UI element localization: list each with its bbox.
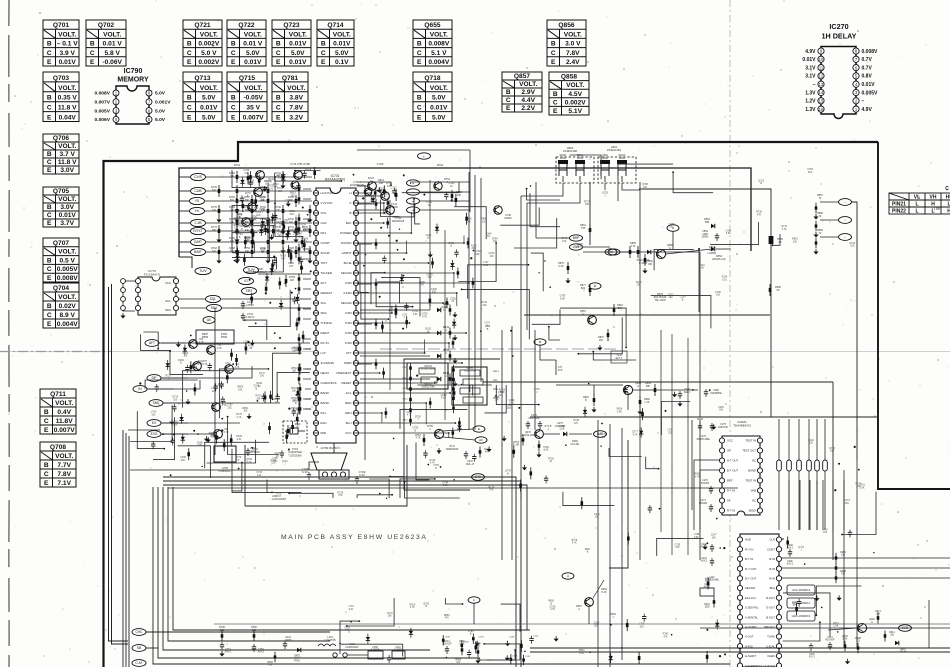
svg-text:CLR: CLR <box>769 538 775 542</box>
svg-text:220: 220 <box>669 296 674 299</box>
svg-text:VOLT.: VOLT. <box>55 400 73 407</box>
svg-text:10K: 10K <box>234 227 239 230</box>
wire vertical right <box>816 480 818 530</box>
svg-text:VOLT.: VOLT. <box>333 31 351 38</box>
transistor Q715 <box>212 403 221 412</box>
connector SB <box>132 645 146 652</box>
svg-text:VCC: VCC <box>165 281 171 285</box>
svg-text:SOUND: SOUND <box>341 241 353 245</box>
svg-text:0.02V: 0.02V <box>59 303 77 310</box>
svg-text:PIN22: PIN22 <box>892 209 906 215</box>
svg-text:C.AF: C.AF <box>135 661 142 665</box>
svg-text:L25SC: L25SC <box>246 303 254 307</box>
wire verticals x469-481 <box>468 172 470 430</box>
connector LH2 oval <box>608 249 620 255</box>
svg-text:100: 100 <box>476 253 481 256</box>
voltage table Q706 <box>43 134 79 174</box>
svg-text:10K: 10K <box>290 279 295 282</box>
svg-text:C208: C208 <box>787 545 793 547</box>
wire mesh layer <box>130 155 876 660</box>
resistor R308 <box>274 652 276 662</box>
svg-text:1K: 1K <box>451 300 454 303</box>
components left of IC202 <box>711 544 713 547</box>
svg-text:4.7K: 4.7K <box>224 431 229 434</box>
svg-text:VOLT.: VOLT. <box>244 31 262 38</box>
svg-text:5.0V: 5.0V <box>155 91 166 97</box>
svg-text:Q705: Q705 <box>53 188 69 195</box>
svg-text:47K: 47K <box>338 494 343 497</box>
svg-text:5.6K: 5.6K <box>173 423 178 426</box>
svg-text:L208 L2066RDKK: L208 L2066RDKK <box>792 616 811 618</box>
connector VIF oval <box>418 153 431 159</box>
svg-text:5.6K: 5.6K <box>843 639 848 641</box>
svg-text:B22: B22 <box>581 287 586 290</box>
transistor Q708 <box>214 430 223 439</box>
svg-text:47K: 47K <box>284 222 289 225</box>
svg-text:C62P20K: C62P20K <box>555 425 566 428</box>
transistor R657 bottom <box>585 598 594 607</box>
svg-text:BAND: BAND <box>321 401 330 405</box>
voltage table Q715 <box>227 72 267 122</box>
diode RB41 <box>360 309 430 311</box>
svg-text:100: 100 <box>640 625 645 628</box>
transistor Q711 <box>207 346 216 355</box>
capacitors C270 C271 left of IC201 <box>710 486 712 489</box>
connector C.AF <box>132 660 146 667</box>
voltage table Q722 <box>227 20 266 66</box>
diode C107 <box>297 648 301 652</box>
capacitor C701 <box>242 313 244 316</box>
svg-text:E: E <box>553 108 558 115</box>
border top step line <box>104 142 879 667</box>
svg-text:47K: 47K <box>485 452 490 454</box>
transistor Q723 <box>381 192 390 201</box>
svg-text:R308: R308 <box>267 662 273 664</box>
svg-text:3.8V: 3.8V <box>289 95 303 102</box>
svg-text:0.005V: 0.005V <box>862 90 879 96</box>
svg-text:100: 100 <box>456 661 461 664</box>
speaker H803 <box>558 160 568 164</box>
svg-text:SDA: SDA <box>165 308 171 312</box>
svg-text:4.7K: 4.7K <box>407 414 412 417</box>
svg-text:E: E <box>478 427 480 431</box>
svg-text:SCL: SCL <box>321 301 327 305</box>
svg-text:35 V: 35 V <box>246 105 260 112</box>
svg-text:BRIGHT: BRIGHT <box>764 625 775 629</box>
PIN21/PIN22 logic table <box>889 193 950 214</box>
svg-text:8.9 V: 8.9 V <box>59 312 75 319</box>
svg-text:5.5M: 5.5M <box>345 321 352 325</box>
wire verticals right bottom <box>843 470 845 648</box>
svg-text:160VE: 160VE <box>294 658 301 660</box>
op-amp U IC202 <box>740 534 779 667</box>
svg-text:TEST OUT: TEST OUT <box>742 449 756 453</box>
svg-text:Q857: Q857 <box>514 73 530 80</box>
svg-text:10K: 10K <box>595 516 600 519</box>
svg-text:L: L <box>931 209 934 215</box>
svg-text:B-Y OUT: B-Y OUT <box>745 577 757 581</box>
voltage table Q713 <box>183 72 222 122</box>
svg-text:120: 120 <box>252 629 257 632</box>
svg-text:S10B1170BA: S10B1170BA <box>421 386 435 389</box>
svg-text:B: B <box>539 340 541 344</box>
svg-text:VOLT.: VOLT. <box>58 249 76 256</box>
svg-text:R-OUT: R-OUT <box>766 596 775 600</box>
svg-text:VOLT.: VOLT. <box>430 85 448 92</box>
svg-text:C: C <box>945 186 949 192</box>
svg-text:C197: C197 <box>479 637 485 639</box>
voltage table Q721 <box>183 20 222 66</box>
connector bottom right oval <box>899 625 912 632</box>
svg-text:2.9V: 2.9V <box>521 89 535 96</box>
svg-text:5.1 V: 5.1 V <box>431 50 447 57</box>
svg-text:4.5M: 4.5M <box>345 311 352 315</box>
svg-text:15: 15 <box>819 99 824 104</box>
svg-text:Q707: Q707 <box>53 240 69 247</box>
svg-text:B: B <box>44 462 49 469</box>
svg-text:•: • <box>844 235 845 239</box>
svg-text:J06: J06 <box>716 294 721 297</box>
svg-text:220: 220 <box>482 304 487 307</box>
dashed box speakers <box>556 157 594 183</box>
components sprinkle IC left pins <box>299 344 301 355</box>
svg-text:0.26568: 0.26568 <box>371 650 380 652</box>
capacitor C148 <box>242 301 244 304</box>
svg-text:TRCK: TRCK <box>294 660 301 662</box>
transistor Q702 <box>254 188 263 197</box>
svg-text:C784: C784 <box>543 447 549 449</box>
svg-text:REF: REF <box>727 479 733 483</box>
svg-text:S10B1170BLF: S10B1170BLF <box>421 369 436 371</box>
svg-text:HUE: HUE <box>745 538 751 542</box>
svg-text:C62P100K: C62P100K <box>528 417 540 420</box>
svg-text:0.008V: 0.008V <box>428 41 450 48</box>
connector 3-pin <box>319 470 349 479</box>
svg-text:3.1V: 3.1V <box>805 74 816 80</box>
resistor R867 <box>607 329 609 341</box>
svg-text:10K: 10K <box>238 389 243 392</box>
svg-text:H: H <box>349 191 351 195</box>
wires speaker box outputs <box>521 183 563 196</box>
svg-text:0.1V: 0.1V <box>335 59 349 66</box>
svg-text:SECAM: SECAM <box>341 301 352 305</box>
connector SND <box>149 400 163 407</box>
svg-text:C110: C110 <box>395 647 401 649</box>
connector G/MT <box>191 238 206 245</box>
svg-text:BAND: BAND <box>321 391 330 395</box>
svg-text:0.01V: 0.01V <box>59 212 77 219</box>
svg-text:R753: R753 <box>513 442 519 444</box>
capacitor C424 <box>284 641 286 644</box>
svg-text:R-Y IN: R-Y IN <box>745 547 753 551</box>
wire fanout IC701 right pins <box>357 188 474 439</box>
svg-text:CONT: CONT <box>767 547 775 551</box>
svg-text:L: L <box>915 202 918 208</box>
svg-text:TINT: TINT <box>321 261 328 265</box>
svg-text:0.002V: 0.002V <box>198 59 220 66</box>
svg-text:100: 100 <box>289 265 294 268</box>
svg-text:47K: 47K <box>239 223 244 226</box>
transistor Q748 <box>494 206 502 214</box>
svg-text:0.01: 0.01 <box>443 484 448 487</box>
svg-text:E: E <box>231 59 236 66</box>
ceramic filter A401 <box>214 446 236 462</box>
svg-text:2SC: 2SC <box>227 406 232 409</box>
svg-text:0.7V: 0.7V <box>862 57 873 63</box>
svg-text:1K: 1K <box>276 455 279 458</box>
transistor Q707 <box>193 362 202 371</box>
svg-text:VCC: VCC <box>727 439 733 443</box>
svg-text:MUL.47: MUL.47 <box>466 463 475 466</box>
svg-text:H26.61P: H26.61P <box>443 644 452 646</box>
svg-text:10K: 10K <box>273 186 278 189</box>
svg-text:0.004V: 0.004V <box>57 321 79 328</box>
transistor Q857 left <box>588 316 597 325</box>
wire bottom y632 <box>146 631 330 633</box>
svg-text:CHES: CHES <box>767 654 775 658</box>
svg-text:0.01V: 0.01V <box>244 59 262 66</box>
connector T/BT <box>242 287 257 294</box>
svg-text:R811: R811 <box>403 367 409 369</box>
svg-text:Q713: Q713 <box>194 75 210 82</box>
svg-text:B: B <box>506 89 511 96</box>
connector SIF <box>147 375 161 382</box>
svg-text:RED: RED <box>345 401 352 405</box>
svg-text:0.005V: 0.005V <box>94 108 110 114</box>
svg-text:4.9V: 4.9V <box>862 107 873 113</box>
svg-text:C: C <box>187 50 192 57</box>
transistor Q712 <box>225 365 234 374</box>
svg-text:1.3V: 1.3V <box>805 90 816 96</box>
svg-text:BLU: BLU <box>346 421 352 425</box>
wires IC202 right rows to edge <box>782 557 950 559</box>
svg-text:C186: C186 <box>445 636 451 638</box>
svg-text:14789 MHI80-4: 14789 MHI80-4 <box>320 446 340 450</box>
voltage table Q705 <box>43 187 79 227</box>
svg-text:10K: 10K <box>457 194 462 197</box>
svg-text:R761: R761 <box>291 388 297 390</box>
svg-text:J06: J06 <box>643 186 648 189</box>
svg-text:TDA468X/V3: TDA468X/V3 <box>733 423 751 427</box>
svg-text:Q704: Q704 <box>53 285 69 292</box>
svg-text:C108: C108 <box>463 641 469 643</box>
svg-text:NC: NC <box>752 459 756 463</box>
svg-text:12: 12 <box>819 74 824 79</box>
svg-text:KEL 1: KEL 1 <box>684 391 691 394</box>
box C188 <box>368 651 383 659</box>
svg-text:RC IN: RC IN <box>321 341 329 345</box>
svg-text:0.01V: 0.01V <box>862 82 876 88</box>
svg-text:C: C <box>44 471 49 478</box>
svg-text:A: A <box>567 574 569 578</box>
connector C.I/B <box>191 219 206 226</box>
connector EXG <box>147 431 161 438</box>
svg-text:J06: J06 <box>183 355 188 358</box>
svg-text:SPKR: SPKR <box>560 157 567 160</box>
connector YS <box>190 197 205 204</box>
wire vertical right <box>788 480 790 530</box>
svg-text:C100: C100 <box>533 636 539 638</box>
connector B/MT <box>191 248 206 255</box>
svg-text:C: C <box>47 212 52 219</box>
wire vertical x445 <box>444 230 446 420</box>
svg-text:R106: R106 <box>842 636 848 638</box>
svg-text:BLK: BLK <box>346 221 352 225</box>
transistor Q705 <box>291 181 299 189</box>
svg-text:5.1V: 5.1V <box>568 108 582 115</box>
svg-text:POWER: POWER <box>340 231 352 235</box>
svg-text:3/4 BAND: 3/4 BAND <box>321 361 335 365</box>
capacitors C475 pair <box>699 423 701 426</box>
wire vertical from D854 junction <box>698 249 700 312</box>
svg-text:V+SYNC: V+SYNC <box>321 201 334 205</box>
svg-text:E: E <box>417 115 422 122</box>
svg-text:4.7K: 4.7K <box>235 366 240 369</box>
capacitor C854 <box>716 233 718 236</box>
svg-text:VOLT.: VOLT. <box>289 31 307 38</box>
svg-text:H: H <box>931 202 935 208</box>
svg-text:R-IN: R-IN <box>769 577 775 581</box>
svg-text:MODI: MODI <box>749 509 757 513</box>
voltage table Q701 <box>43 20 79 66</box>
wires left-middle runs <box>161 342 310 344</box>
svg-text:CH -: CH - <box>493 378 498 382</box>
svg-text:T35: T35 <box>581 227 586 230</box>
svg-text:5.6K: 5.6K <box>197 444 202 447</box>
wires verticals behind pills <box>778 419 780 530</box>
svg-text:2SC: 2SC <box>181 459 186 462</box>
svg-text:10K: 10K <box>292 391 297 393</box>
svg-text:MID: MID <box>321 431 327 435</box>
svg-text:B: B <box>47 204 52 211</box>
svg-text:14: 14 <box>819 90 824 95</box>
resistor column R811-R816 <box>410 363 412 374</box>
svg-text:4.7K: 4.7K <box>550 608 555 611</box>
svg-text:VOLT.: VOLT. <box>58 294 76 301</box>
resistor R864 <box>613 304 615 316</box>
wire vertical x640 <box>639 182 641 560</box>
svg-text:1K: 1K <box>245 344 248 347</box>
left margin scan line <box>8 0 10 667</box>
svg-text:3.5M: 3.5M <box>345 281 352 285</box>
resistor network R7xx cluster <box>218 185 220 197</box>
crystal X701 dashed box <box>283 421 307 443</box>
svg-text:120: 120 <box>220 629 225 632</box>
svg-text:L.8K: L.8K <box>834 626 839 628</box>
svg-text:5.0V: 5.0V <box>155 108 166 114</box>
connector EX <box>147 420 161 427</box>
voltage table Q856 <box>547 20 586 66</box>
svg-text:1.2V: 1.2V <box>805 99 816 105</box>
svg-text:J06: J06 <box>243 410 248 413</box>
svg-text:VOLT.: VOLT. <box>55 453 73 460</box>
voltage table Q655 <box>413 20 452 66</box>
svg-text:VAB: VAB <box>751 489 757 493</box>
left double bus <box>109 287 129 641</box>
svg-text:0.01V: 0.01V <box>802 57 816 63</box>
svg-text:0.001V: 0.001V <box>155 100 171 106</box>
svg-text:-0.06V: -0.06V <box>102 59 122 66</box>
svg-text:R816: R816 <box>403 420 409 422</box>
svg-text:MAIN PCB ASSY E8HW UE2623A: MAIN PCB ASSY E8HW UE2623A <box>281 534 428 541</box>
svg-text:K01.45L: K01.45L <box>571 443 581 446</box>
wires Q836 area <box>556 384 623 386</box>
svg-text:1K: 1K <box>258 385 261 388</box>
svg-text:51K: 51K <box>212 189 217 192</box>
svg-text:R26.6VP: R26.6VP <box>825 640 835 642</box>
svg-text:SECAM: SECAM <box>341 271 352 275</box>
svg-text:SPKR: SPKR <box>619 157 626 160</box>
wires cluster rows <box>232 176 312 178</box>
svg-text:FR202: FR202 <box>504 217 512 220</box>
svg-text:IDENT: IDENT <box>321 331 330 335</box>
svg-text:E: E <box>506 105 511 112</box>
transistor Q701 <box>256 171 265 180</box>
transistor Q722 <box>368 182 377 191</box>
svg-text:J06R0000R: J06R0000R <box>446 448 459 451</box>
transistor Q706 <box>189 340 198 349</box>
svg-text:VOL: VOL <box>321 211 327 215</box>
label T2-R <box>611 351 627 363</box>
svg-text:B-IN: B-IN <box>769 567 775 571</box>
svg-text:1K: 1K <box>549 460 552 463</box>
svg-text:0.25mC: 0.25mC <box>245 315 254 319</box>
svg-text:C2/B: C2/B <box>194 189 201 193</box>
svg-text:3.0V: 3.0V <box>60 204 74 211</box>
svg-text:C20b: C20b <box>787 561 793 563</box>
wire vertical right <box>809 480 811 530</box>
svg-text:0.002V: 0.002V <box>198 41 220 48</box>
wire vertical x700 down <box>699 252 701 417</box>
svg-text:5.6K: 5.6K <box>860 487 865 490</box>
svg-text:7.1V: 7.1V <box>57 480 71 487</box>
gnd marks mid <box>599 345 601 348</box>
svg-text:10: 10 <box>819 57 824 62</box>
connector CTA oval <box>472 474 485 481</box>
svg-text:1.3V: 1.3V <box>805 107 816 113</box>
diode RB42 <box>360 332 430 334</box>
svg-text:C188: C188 <box>372 647 378 649</box>
transistor Q741 matrix <box>434 429 443 438</box>
wire right bottom pair <box>530 647 950 649</box>
svg-text:C: C <box>231 105 236 112</box>
svg-text:7.8V: 7.8V <box>289 105 303 112</box>
svg-text:SMID: SMID <box>344 361 352 365</box>
svg-text:5.0V: 5.0V <box>291 50 305 57</box>
svg-text:1K: 1K <box>295 235 298 238</box>
svg-text:SCL: SCL <box>165 299 171 303</box>
connector TU/V <box>195 267 211 274</box>
svg-text:E: E <box>47 275 52 282</box>
svg-text:H-SHIFT: H-SHIFT <box>745 654 756 658</box>
wires BHP <box>536 237 570 239</box>
svg-text:100: 100 <box>212 390 217 393</box>
svg-text:E: E <box>551 59 556 66</box>
resonator module trapezoid <box>311 453 347 470</box>
svg-text:AV: AV <box>479 438 483 442</box>
components C114 cluster right <box>829 642 831 645</box>
svg-text:Q702: Q702 <box>98 22 114 29</box>
svg-text:B: B <box>47 95 52 102</box>
svg-text:47K: 47K <box>198 363 203 366</box>
svg-text:1K: 1K <box>487 235 490 238</box>
wires Q742 <box>534 417 536 430</box>
svg-text:5.0 V: 5.0 V <box>201 50 217 57</box>
svg-text:5.6K: 5.6K <box>694 536 699 539</box>
svg-text:BHP: BHP <box>573 236 580 240</box>
connector pad 1 <box>407 180 420 186</box>
svg-text:35WD: 35WD <box>702 236 709 239</box>
